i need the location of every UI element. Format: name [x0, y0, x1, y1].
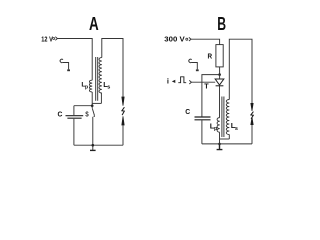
transformer secondary Ls (A): [99, 58, 102, 94]
actuator symbol (B) foot: [196, 69, 199, 71]
wire anode into thyristor: [219, 75, 221, 79]
svg-text:C: C: [58, 109, 63, 118]
capacitor C (A) plates: [66, 116, 84, 119]
svg-text:12 V: 12 V: [41, 34, 53, 43]
capacitor C (A) wire bottom: [73, 119, 75, 145]
wire 300V to R: [191, 39, 220, 44]
transformer secondary Ls (B): [226, 100, 229, 135]
terminal chevron B: [189, 37, 191, 41]
actuator symbol (A) foot: [67, 69, 70, 71]
transformer core (B): [222, 97, 224, 138]
spark gap (A) upper arrow: [122, 97, 124, 106]
svg-text:i: i: [167, 77, 169, 86]
actuator symbol (B) lever: [192, 63, 198, 70]
svg-text:T: T: [204, 81, 209, 90]
wire secondary bottom lead: [100, 93, 102, 103]
wire secondary top to right loop (B): [229, 39, 252, 103]
ground symbol (A): [90, 149, 96, 151]
svg-text:s: s: [235, 126, 238, 132]
ground symbol (B): [217, 144, 223, 150]
wire cathode to primary: [219, 86, 221, 118]
thyristor T triangle: [215, 79, 224, 85]
actuator symbol (B) arc: [189, 59, 192, 62]
wire node to capacitor branch: [202, 75, 220, 117]
terminal chevron A: [55, 37, 57, 41]
svg-text:s: s: [107, 85, 110, 91]
junction dot ground node (B): [218, 143, 221, 146]
svg-text:C: C: [185, 107, 190, 116]
transformer core (A): [96, 57, 98, 101]
bottom rail (B): [202, 143, 252, 145]
svg-text:300 V: 300 V: [164, 35, 184, 44]
svg-text:B: B: [217, 14, 226, 34]
terminal chevron i: [189, 80, 191, 84]
svg-text:p: p: [85, 84, 88, 90]
terminal circle B: [186, 38, 188, 40]
switch S blade: [92, 108, 94, 115]
switch S contact: [94, 116, 95, 117]
wire spark gap to rail (B): [251, 125, 253, 144]
spark gap (B) upper arrow: [251, 103, 253, 111]
gate wire: [191, 81, 215, 83]
wire primary bottom to node dot: [91, 92, 93, 106]
bottom rail (A): [74, 144, 123, 146]
wire secondary top to right loop: [102, 39, 123, 98]
actuator symbol (A) arc: [60, 59, 63, 62]
node row wire (A): [74, 105, 92, 107]
wire primary bottom to rail (B): [219, 132, 221, 144]
svg-text:A: A: [89, 14, 99, 34]
arrow left (i): [172, 80, 176, 83]
svg-text:S: S: [85, 110, 89, 119]
terminal circle A: [53, 38, 55, 40]
wire 12V to primary top: [57, 39, 92, 81]
capacitor C (A) wire top: [73, 106, 75, 115]
spark gap (B) lower arrow: [251, 117, 253, 125]
resistor R box: [216, 45, 223, 67]
switch S wire bottom: [92, 117, 94, 150]
transformer primary Lp (A): [89, 80, 92, 92]
spark gap (A) spark zigzag: [122, 107, 125, 115]
ground junction dot (A): [92, 144, 95, 147]
spark gap (A) lower arrow: [122, 116, 124, 125]
junction dot anode node: [218, 73, 221, 76]
pulse waveform glyph: [178, 77, 186, 83]
actuator symbol (A) lever: [63, 63, 69, 70]
wire R to anode node: [219, 67, 221, 75]
spark gap (B) spark zigzag: [251, 112, 254, 119]
svg-text:R: R: [208, 52, 213, 61]
capacitor C (B) wire bottom: [201, 120, 203, 144]
thyristor T cathode bar: [216, 85, 224, 87]
transformer primary Lp (B): [217, 118, 220, 133]
capacitor C (B) plates: [195, 117, 211, 120]
wire spark gap to rail (A): [122, 125, 124, 145]
switch S stub: [91, 106, 93, 109]
wire secondary bottom lead (B): [228, 135, 230, 140]
bracket under transformer (A): [92, 102, 101, 104]
bracket under transformer (B): [220, 138, 230, 140]
junction dot A: [91, 104, 94, 107]
